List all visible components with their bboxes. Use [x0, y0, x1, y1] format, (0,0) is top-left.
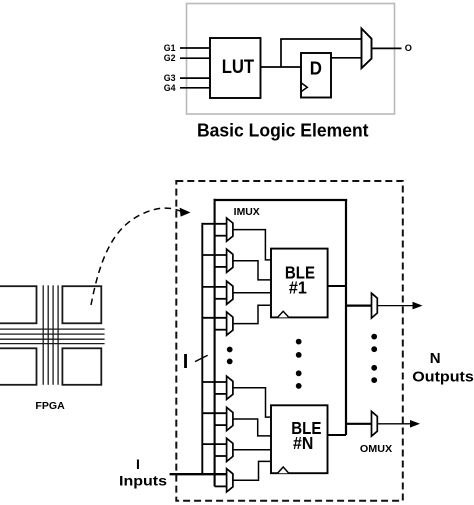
dots between IMUX groups	[227, 347, 233, 353]
dots between BLEs	[296, 339, 302, 345]
svg-text:IMUX: IMUX	[234, 207, 260, 218]
IMUX mux 5	[202, 376, 233, 399]
wire G2 input	[180, 57, 210, 59]
wire bypass horizontal to mux	[280, 38, 361, 40]
input bus line 2 (feedback left)	[214, 199, 216, 487]
svg-text:Outputs: Outputs	[412, 369, 474, 386]
wire LUT output to D input	[261, 66, 302, 68]
svg-text:OMUX: OMUX	[360, 444, 393, 455]
svg-text:I: I	[136, 456, 140, 472]
wire mux output	[372, 47, 402, 49]
FPGA vertical routing channel	[43, 285, 58, 385]
LUT block	[210, 38, 261, 98]
wire OMUX1 input	[346, 305, 372, 307]
svg-text:FPGA: FPGA	[35, 401, 65, 412]
wire mux5 to BLEN	[233, 388, 271, 417]
svg-text:#1: #1	[289, 277, 307, 297]
svg-text:D: D	[310, 58, 322, 79]
wire D output to mux	[331, 57, 362, 59]
wire OMUX2 input	[346, 423, 372, 425]
BLE detail enclosure box	[187, 4, 395, 115]
IMUX mux 8	[215, 469, 233, 492]
wire BLEN output	[328, 434, 347, 436]
IMUX mux 3	[202, 281, 233, 304]
dashed zoom curve from FPGA to cluster	[91, 208, 181, 305]
IMUX mux 4	[202, 312, 233, 335]
clock triangle	[301, 83, 307, 92]
wire mux1 to BLE1	[233, 230, 271, 260]
wire OMUX2 output arrow	[377, 423, 411, 425]
bus width slash	[195, 355, 208, 361]
FPGA icon square bottom-left	[0, 348, 37, 385]
svg-text:G2: G2	[164, 53, 176, 64]
IMUX mux 7	[202, 438, 233, 461]
dots between OMUXes	[371, 334, 377, 340]
wire BLE1 output	[328, 285, 347, 287]
output mux (2:1)	[362, 29, 372, 69]
BLE1 clock triangle	[278, 311, 289, 317]
svg-text:N: N	[430, 350, 441, 367]
FPGA icon square top-left	[0, 286, 37, 323]
input bus line 1	[201, 223, 203, 474]
wire G4 input	[180, 87, 210, 89]
svg-text:Basic Logic Element: Basic Logic Element	[197, 120, 369, 141]
IMUX mux 6	[202, 407, 233, 430]
wire mux8 to BLEN	[233, 461, 271, 480]
OMUX mux 1	[372, 293, 378, 318]
wire bypass vertical	[280, 39, 282, 67]
IMUX mux 2	[202, 249, 233, 272]
wire mux4 to BLE1	[233, 305, 271, 323]
FPGA icon square bottom-right	[62, 348, 101, 385]
BLE #N	[271, 405, 328, 473]
wire G1 input	[180, 47, 210, 49]
zoom curve arrowhead	[180, 208, 191, 217]
I inputs wire	[170, 473, 227, 475]
BLEN clock triangle	[278, 467, 289, 473]
wire mux7 to BLEN	[233, 449, 271, 451]
svg-text:Inputs: Inputs	[119, 473, 167, 489]
feedback top wire	[214, 199, 348, 201]
FPGA icon square top-right	[62, 286, 101, 323]
wire OMUX1 output arrow	[377, 305, 414, 307]
D flip-flop	[301, 53, 331, 98]
svg-text:I: I	[183, 351, 189, 373]
wire mux6 to BLEN	[233, 419, 271, 436]
OMUX mux 2	[372, 411, 378, 436]
wire mux2 to BLE1	[233, 261, 271, 280]
svg-text:LUT: LUT	[222, 56, 254, 78]
FPGA horizontal routing channel	[0, 329, 105, 344]
svg-text:G4: G4	[164, 83, 176, 94]
wire G3 input	[180, 77, 210, 79]
feedback right bus	[345, 199, 347, 435]
svg-text:O: O	[405, 43, 412, 53]
BLE #1	[271, 249, 328, 318]
IMUX mux 1	[202, 218, 233, 241]
wire mux3 to BLE1	[233, 292, 271, 294]
cluster dashed border	[176, 181, 402, 501]
svg-text:#N: #N	[293, 433, 313, 453]
